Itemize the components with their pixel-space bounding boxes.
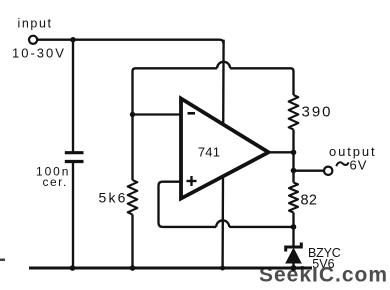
wire plus input loop: [159, 182, 217, 227]
ground rail bottom: [29, 267, 312, 270]
wire 390 bottom to output node: [292, 130, 294, 153]
wire 82 bottom to zener node: [292, 213, 294, 227]
svg-text:5k6: 5k6: [99, 189, 128, 205]
node junction dot rail left: [70, 265, 76, 271]
node junction dot rail supply: [220, 266, 225, 271]
node junction dot input/top: [70, 37, 75, 42]
node junction dot output tap: [291, 168, 297, 174]
wire inverting input: [133, 113, 181, 115]
wire op-amp output: [269, 151, 294, 153]
node junction dot inverting input: [130, 112, 135, 117]
wire feedback top from inverting node over supply to 390: [133, 68, 218, 114]
resistor R3 82 zigzag: [289, 183, 298, 213]
svg-text:6V: 6V: [350, 157, 368, 172]
output terminal circle: [324, 167, 332, 175]
capacitor C1 100n plates: [65, 151, 84, 154]
op-amp U1 741 triangle: [181, 99, 269, 199]
wire 5k6 vertical upper: [131, 115, 133, 181]
zener diode D1 cathode bar: [286, 243, 302, 252]
zener diode D1 triangle: [286, 249, 301, 263]
node junction dot output top: [291, 150, 297, 156]
op-amp U1 minus input symbol: [188, 112, 196, 115]
wire output tap: [294, 169, 325, 171]
svg-text:input: input: [18, 17, 53, 31]
label ~6V: [336, 162, 348, 166]
watermark artifact left: [0, 259, 5, 262]
resistor R2 5k6 zigzag: [128, 180, 138, 215]
wire crossover hump top: [217, 62, 230, 68]
node junction dot rail zener: [291, 265, 297, 271]
op-amp U1 plus input symbol: [187, 180, 197, 182]
wire output node vertical: [292, 152, 294, 182]
zener diode D1 wire top: [292, 227, 294, 246]
input terminal circle: [29, 36, 37, 44]
wire top from input to supply corner: [37, 40, 223, 44]
svg-text:cer.: cer.: [43, 175, 68, 189]
svg-text:741: 741: [198, 145, 220, 160]
node junction dot zener node: [291, 224, 297, 230]
svg-text:10-30V: 10-30V: [12, 46, 66, 61]
svg-text:82: 82: [301, 193, 318, 209]
wire supply vertical V+ line: [223, 40, 224, 267]
wire crossover hump bottom: [216, 220, 229, 227]
resistor R1 390 zigzag: [289, 95, 299, 130]
svg-text:390: 390: [302, 104, 333, 121]
wire left vertical from top junction to rail: [72, 40, 74, 152]
wire 5k6 vertical lower: [131, 215, 133, 268]
zener diode D1 stub to rail: [292, 263, 294, 269]
node junction dot rail 5k6: [130, 265, 136, 271]
